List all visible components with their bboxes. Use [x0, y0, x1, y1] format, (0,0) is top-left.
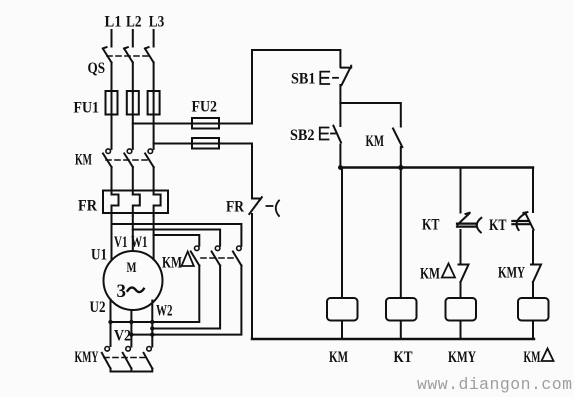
wire L1 lead: [111, 30, 113, 47]
wire L3 lead: [153, 30, 155, 47]
svg-text:KM: KM: [162, 255, 182, 272]
svg-text:KMY: KMY: [498, 265, 525, 282]
svg-text:W1: W1: [131, 234, 148, 251]
contactor KMY star contacts: [75, 347, 153, 369]
svg-text:FR: FR: [78, 198, 97, 215]
svg-text:L2: L2: [126, 14, 142, 31]
contact KT delayed (NC, to KMY branch): [422, 213, 481, 234]
svg-text:KM: KM: [420, 266, 440, 283]
wire KM holding branch top: [340, 103, 400, 127]
wire motor W2 down: [151, 301, 153, 347]
svg-text:KM: KM: [75, 152, 92, 169]
fuse FU2: [133, 99, 252, 149]
wire FR to bottom rail: [251, 214, 253, 339]
wire branch KM coil: [341, 168, 343, 299]
coil KM: [327, 298, 358, 321]
node V2: [114, 328, 131, 345]
svg-text:L3: L3: [149, 14, 165, 31]
wire KM to FR phase2: [132, 167, 134, 195]
wire FU1 to KM phase1: [111, 115, 113, 149]
wire SB2 to rail: [339, 145, 341, 168]
wire KM aux to rail: [400, 147, 402, 168]
wire QS to FU1 phase1: [111, 63, 113, 93]
node U2: [90, 299, 106, 316]
wire star point bus: [111, 369, 153, 372]
motor M 3~: [104, 251, 163, 310]
thermal relay FR heater box: [78, 191, 168, 217]
wire FU1 to KM phase2: [132, 115, 134, 149]
node label KM coil: [329, 349, 348, 366]
svg-text:U1: U1: [91, 247, 107, 264]
wire to KMY coil: [460, 282, 462, 298]
wire motor V2 down: [130, 310, 132, 347]
svg-text:KM: KM: [366, 133, 385, 150]
svg-text:FU2: FU2: [192, 99, 218, 116]
node L2: [126, 14, 142, 31]
wire control bottom rail: [252, 338, 534, 341]
wire FR to motor W1: [153, 216, 155, 259]
wire delta top V1 to KM-delta contact2: [133, 230, 220, 246]
contact KM-delta NC interlock: [420, 264, 469, 283]
svg-text:KT: KT: [489, 217, 507, 234]
contact KMY NC interlock: [498, 265, 541, 283]
wire control hot: FU2a to top rail to SB1: [252, 50, 340, 124]
wire FR to motor V1: [132, 216, 134, 251]
svg-text:KMY: KMY: [448, 349, 476, 366]
wire branch KMY: [460, 168, 462, 213]
contactor KM main contacts: [75, 149, 154, 169]
contact KT delayed (NO, to KM-delta branch): [489, 212, 534, 234]
svg-text:3: 3: [117, 281, 127, 302]
wire KT contact2 to KMY NC: [532, 231, 534, 264]
wire FU1 to KM phase3: [153, 115, 155, 149]
svg-text:W2: W2: [156, 303, 173, 320]
node L1: [105, 14, 122, 31]
wire KM coil to bottom rail: [341, 321, 343, 340]
svg-text:M: M: [127, 260, 137, 276]
node U1: [91, 247, 107, 264]
svg-text:SB1: SB1: [291, 71, 316, 88]
wire delta top W1 to KM-delta contact1: [154, 235, 200, 246]
svg-text:KT: KT: [394, 349, 413, 366]
wire to KM-delta coil: [532, 282, 534, 298]
wire KT coil to bottom rail: [400, 321, 402, 340]
svg-text:FU1: FU1: [74, 100, 100, 117]
svg-text:FR: FR: [226, 199, 244, 216]
wire SB1 to SB2: [339, 85, 341, 126]
contactor KM-delta contacts: [162, 246, 241, 272]
wire KM-delta coil to bottom rail: [532, 321, 534, 340]
wire control mid rail: [340, 166, 533, 169]
wire branch KM-delta: [532, 168, 534, 213]
svg-text:KM: KM: [329, 349, 348, 366]
wire KM to FR phase3: [153, 167, 155, 195]
wire KT contact to KM-delta NC: [460, 230, 462, 264]
wire L3 tap to control via FU2b: [154, 143, 252, 145]
node L3: [149, 14, 165, 31]
svg-text:SB2: SB2: [290, 127, 315, 144]
wire QS to FU1 phase2: [132, 63, 134, 93]
fuse FU1: [74, 91, 160, 117]
svg-text:U2: U2: [90, 299, 106, 316]
svg-text:QS: QS: [88, 60, 106, 77]
wire L2 tap to control via FU2a: [133, 123, 252, 125]
wire KMY coil to bottom rail: [460, 321, 462, 340]
wire QS to FU1 phase3: [153, 63, 155, 93]
wire KM-delta contact3 to V2 (delta C): [131, 266, 241, 335]
contact KM auxiliary (hold): [366, 129, 403, 151]
node label KMY coil: [448, 349, 476, 366]
wire KM-delta contact1 to U2 (delta A): [111, 266, 200, 323]
coil KM-delta: [518, 298, 549, 321]
wire delta top U1 to KM-delta contact3: [112, 224, 242, 246]
wire L2 lead: [132, 30, 134, 47]
node label KT coil: [394, 349, 413, 366]
contact FR (NC overload): [226, 197, 279, 216]
pushbutton SB2 (NO): [290, 126, 341, 144]
node junction dot rail KT: [398, 165, 403, 170]
wire KM-delta contact2 to W2 (delta B): [152, 266, 220, 329]
pushbutton SB1 (NC): [291, 66, 351, 88]
svg-text:KM: KM: [524, 349, 541, 366]
node label KM-delta coil: [524, 349, 554, 367]
svg-text:V2: V2: [114, 328, 131, 345]
wire branch KT coil: [400, 168, 402, 299]
coil KMY: [446, 298, 477, 321]
node junction dot rail KM coil: [338, 165, 343, 170]
node W1: [131, 234, 148, 251]
wire control neutral: FU2b down to FR contact: [251, 144, 253, 198]
wire KM to FR phase1: [111, 167, 113, 195]
wire FR to motor U1: [111, 216, 113, 260]
svg-text:KMY: KMY: [75, 349, 99, 366]
switch QS: [88, 47, 154, 77]
svg-text:www.diangon.com: www.diangon.com: [417, 375, 572, 394]
svg-text:KT: KT: [422, 217, 440, 234]
svg-text:L1: L1: [105, 14, 122, 31]
coil KT: [386, 298, 417, 321]
svg-text:V1: V1: [114, 234, 128, 251]
node W2: [156, 303, 173, 320]
wire motor U2 down: [110, 300, 112, 347]
node V1: [114, 234, 128, 251]
node junction dots delta: [108, 320, 154, 337]
